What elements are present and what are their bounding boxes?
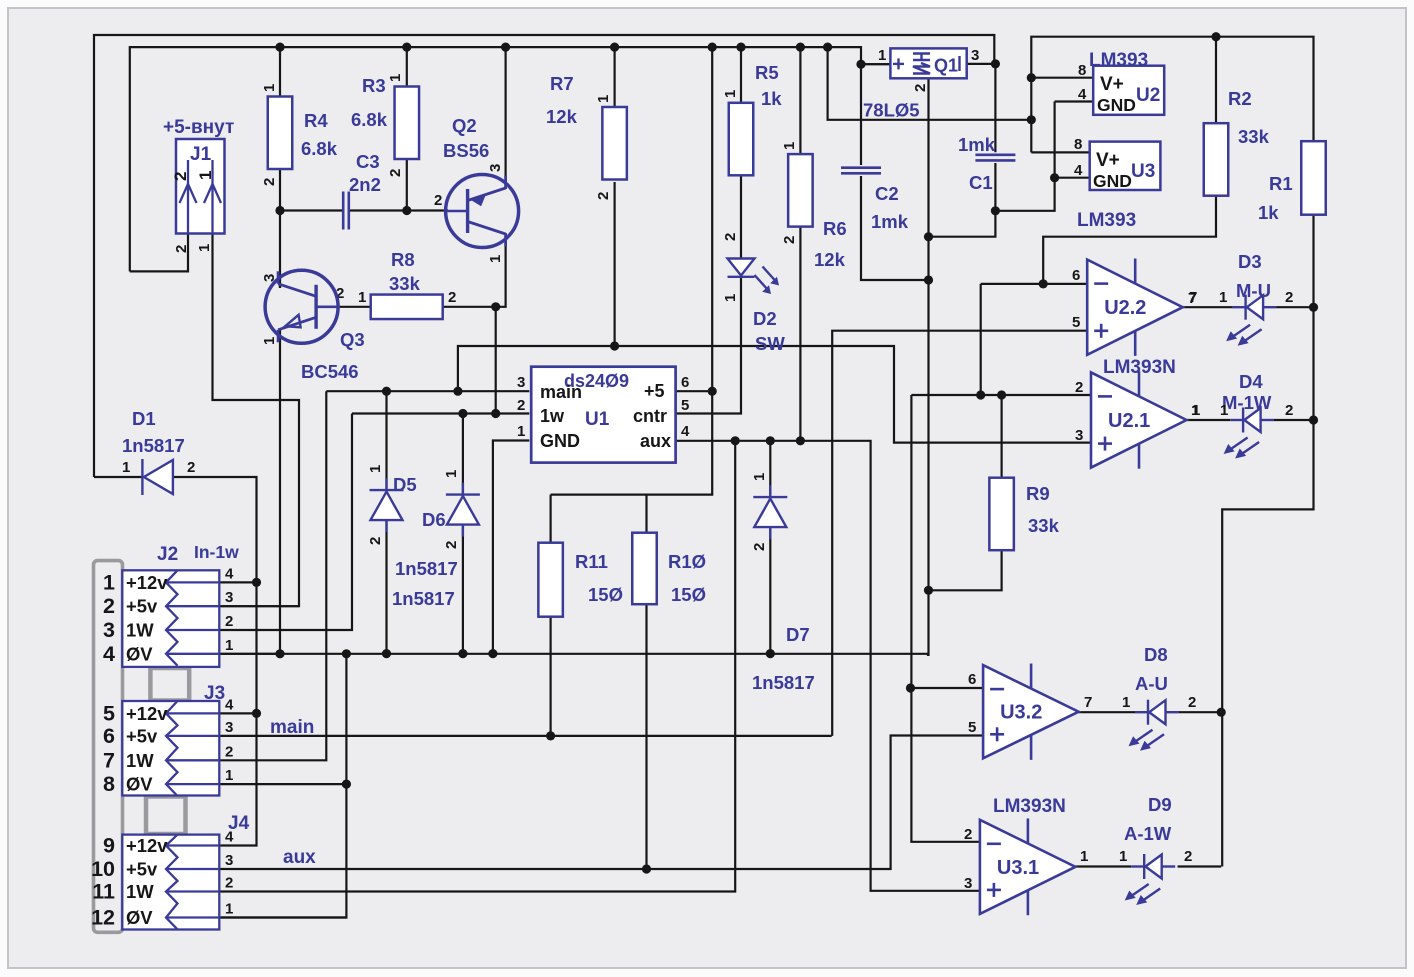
svg-text:ØV: ØV xyxy=(126,643,153,664)
connector J1 xyxy=(176,139,225,234)
wire R8/Q2 node down to 1w line xyxy=(495,307,497,414)
junction Q1 pin1/C2 xyxy=(856,60,865,69)
junction main sense/main line xyxy=(453,387,462,396)
svg-text:2: 2 xyxy=(751,543,768,551)
wire Q2 collector to +5V rail xyxy=(505,47,507,189)
svg-text:GND: GND xyxy=(540,431,580,451)
svg-text:1: 1 xyxy=(1219,289,1227,306)
svg-text:2: 2 xyxy=(434,192,442,209)
svg-text:8: 8 xyxy=(103,772,115,796)
svg-text:In-1w: In-1w xyxy=(194,542,239,562)
transistor Q3 xyxy=(265,270,338,343)
svg-text:D9: D9 xyxy=(1148,794,1172,815)
wire Q1 pin2 GND vertical xyxy=(927,78,929,655)
resistor R11 xyxy=(538,543,563,617)
junction Q2 collector/+5V rail xyxy=(501,43,510,52)
svg-text:1k: 1k xyxy=(761,88,782,109)
wire D7 column xyxy=(769,441,771,654)
wire U3.1 output xyxy=(1075,865,1131,867)
junction V+ feed/+5V rail xyxy=(823,43,832,52)
svg-text:6: 6 xyxy=(681,374,689,391)
wire U1 +5 pin to rail xyxy=(676,390,712,392)
wire U2 pin4 stub xyxy=(1055,100,1094,102)
svg-text:M-U: M-U xyxy=(1236,280,1271,301)
wire D5 column xyxy=(385,391,387,653)
svg-text:1: 1 xyxy=(443,470,460,478)
svg-text:BC546: BC546 xyxy=(301,361,359,382)
svg-text:2: 2 xyxy=(103,594,115,618)
wire Q3 emitter down to 0V bus xyxy=(279,330,281,654)
svg-text:R1Ø: R1Ø xyxy=(668,551,706,572)
junction R2 top bus xyxy=(1211,32,1220,41)
svg-text:2: 2 xyxy=(443,541,460,549)
svg-text:U3.1: U3.1 xyxy=(997,857,1039,879)
junction GND C1/U2U3 xyxy=(991,206,1000,215)
svg-text:2: 2 xyxy=(1184,848,1192,865)
wire D9 cathode to right chain xyxy=(1178,865,1222,867)
junction V+ feed/V+ vertical xyxy=(1027,115,1036,124)
wire U2 pin8 stub xyxy=(1031,77,1093,79)
wire R7 bottom to main-sense line xyxy=(613,182,615,346)
led D2 xyxy=(728,259,780,295)
junction U3 pin4 xyxy=(1050,173,1059,182)
svg-text:1: 1 xyxy=(1119,848,1127,865)
svg-text:Q2: Q2 xyxy=(452,115,477,136)
svg-text:2: 2 xyxy=(448,289,456,306)
svg-text:1: 1 xyxy=(1122,694,1130,711)
svg-text:11: 11 xyxy=(92,880,115,904)
wire U2.1 pin2 line xyxy=(911,394,1091,396)
svg-text:3: 3 xyxy=(964,875,972,892)
svg-text:4: 4 xyxy=(1078,86,1087,103)
wire U3 pin4 stub xyxy=(1055,177,1090,179)
wire +5V rail bus xyxy=(130,47,891,271)
wire R2 bottom to minus net xyxy=(1043,195,1216,284)
wire 1w line to J2 1W pin xyxy=(219,414,352,631)
svg-text:J2: J2 xyxy=(157,544,178,565)
svg-text:GND: GND xyxy=(1097,95,1136,115)
svg-text:+5v: +5v xyxy=(126,596,158,617)
wire J3 pin1 stub xyxy=(219,783,346,785)
junction J3 pin4/+12v chain xyxy=(252,709,261,718)
svg-text:cntr: cntr xyxy=(633,406,667,426)
junction 0V/D5 xyxy=(382,649,391,658)
svg-text:R2: R2 xyxy=(1228,88,1252,109)
svg-text:2: 2 xyxy=(1188,694,1196,711)
junction R3/+5V rail xyxy=(402,43,411,52)
junction main line/D5 xyxy=(382,387,391,396)
wire Q1 pin1 stub xyxy=(861,63,890,65)
transistor Q2 xyxy=(446,175,519,248)
junction GND vertical/C2 xyxy=(924,275,933,284)
svg-text:3: 3 xyxy=(517,374,525,391)
svg-text:aux: aux xyxy=(640,431,671,451)
svg-text:D1: D1 xyxy=(132,408,156,429)
svg-text:4: 4 xyxy=(225,696,234,713)
wire 1w line xyxy=(352,412,529,414)
wire R5 top xyxy=(740,47,742,103)
wire main line xyxy=(326,390,529,392)
svg-text:1n5817: 1n5817 xyxy=(752,672,815,693)
connector J4 xyxy=(122,835,219,930)
svg-text:BS56: BS56 xyxy=(443,140,489,161)
power block U2 (LM393) xyxy=(1093,66,1164,115)
wire V+ vertical / right top bus xyxy=(1031,37,1313,153)
resistor R3 xyxy=(395,87,420,160)
capacitor C2 xyxy=(841,168,881,174)
junction 0V/D7 xyxy=(766,649,775,658)
svg-text:2: 2 xyxy=(517,397,525,414)
wire J4 pin1 stub xyxy=(219,916,346,918)
wire J3 +5v line to comparators xyxy=(219,735,831,737)
junction minus net/R9 xyxy=(997,390,1006,399)
svg-text:D2: D2 xyxy=(753,308,777,329)
svg-text:6: 6 xyxy=(103,724,115,748)
svg-text:6: 6 xyxy=(968,671,976,688)
junction +5 feed/+5V rail xyxy=(708,43,717,52)
wire Q2 emitter down to R8 node xyxy=(442,233,505,307)
junction minus net/U3.2 pin6 xyxy=(906,683,915,692)
wire R3 bottom to C3 node xyxy=(406,160,408,211)
junction GND vertical/C1 link xyxy=(924,232,933,241)
wire R10 bottom xyxy=(645,604,647,869)
svg-text:1n5817: 1n5817 xyxy=(395,558,458,579)
wire R10 top stub xyxy=(645,495,647,533)
svg-text:A-1W: A-1W xyxy=(1124,823,1172,844)
svg-text:1: 1 xyxy=(367,465,384,473)
junction C3/R4 node xyxy=(275,206,284,215)
svg-text:1: 1 xyxy=(225,637,233,654)
svg-text:1W: 1W xyxy=(126,750,154,771)
junction D4/R1 chain xyxy=(1309,415,1318,424)
svg-text:33k: 33k xyxy=(389,273,421,294)
wire 0V bus xyxy=(219,654,927,655)
junction R4/+5V rail xyxy=(275,43,284,52)
junction 0V/Q3 emitter xyxy=(275,649,284,658)
wire J1 pin2 to +5V rail xyxy=(130,234,188,272)
svg-text:ØV: ØV xyxy=(126,907,153,928)
svg-text:J4: J4 xyxy=(228,813,250,834)
svg-text:5: 5 xyxy=(1072,314,1080,331)
svg-text:2: 2 xyxy=(912,84,929,92)
junction C3/R3 node xyxy=(402,206,411,215)
led D3 xyxy=(1226,295,1277,346)
wire R1 bottom chain xyxy=(1222,215,1313,867)
svg-text:1: 1 xyxy=(196,244,213,252)
svg-text:1: 1 xyxy=(225,767,233,784)
wire U2.2 output xyxy=(1182,306,1232,308)
wire C2 bottom to GND vertical xyxy=(861,176,929,280)
wire J4 1W line (aux) xyxy=(219,441,735,892)
svg-text:+5: +5 xyxy=(644,381,665,401)
junction J4 +5v/R10 xyxy=(642,864,651,873)
svg-text:3: 3 xyxy=(103,618,115,642)
diode D5 xyxy=(370,478,404,532)
svg-text:12: 12 xyxy=(91,906,115,930)
wire U3 pin8 stub xyxy=(1031,151,1089,153)
svg-text:2: 2 xyxy=(964,826,972,843)
junction 0V/D6 xyxy=(458,649,467,658)
svg-text:1: 1 xyxy=(387,74,404,82)
svg-text:LM393N: LM393N xyxy=(993,796,1066,817)
junction D8/right chain xyxy=(1217,708,1226,717)
svg-text:aux: aux xyxy=(283,847,316,868)
svg-text:1: 1 xyxy=(722,90,739,98)
svg-text:2: 2 xyxy=(187,459,195,476)
svg-text:1: 1 xyxy=(122,459,130,476)
svg-text:2: 2 xyxy=(781,236,798,244)
wire +5 feed vertical xyxy=(551,47,713,495)
resistor R4 xyxy=(268,97,293,170)
svg-text:3: 3 xyxy=(1075,427,1083,444)
wire D8 cathode to right chain xyxy=(1179,711,1221,713)
wire aux line xyxy=(676,441,980,891)
svg-text:3: 3 xyxy=(261,274,278,282)
resistor R9 xyxy=(989,478,1014,551)
svg-text:7: 7 xyxy=(1188,290,1196,307)
svg-text:U2: U2 xyxy=(1136,85,1160,106)
junction 1w/D6 xyxy=(458,409,467,418)
svg-text:+12v: +12v xyxy=(126,572,168,593)
junction GND vertical/R9 xyxy=(924,586,933,595)
svg-text:2: 2 xyxy=(1285,402,1293,419)
led D8 xyxy=(1129,700,1180,751)
svg-text:2: 2 xyxy=(1285,289,1293,306)
svg-text:1w: 1w xyxy=(540,406,565,426)
svg-text:R5: R5 xyxy=(755,62,779,83)
wire D1 cathode to +12v pins xyxy=(173,477,257,846)
led D9 xyxy=(1125,854,1176,905)
svg-text:3: 3 xyxy=(225,589,233,606)
svg-text:J1: J1 xyxy=(190,144,212,165)
svg-text:R3: R3 xyxy=(362,75,386,96)
svg-text:6.8k: 6.8k xyxy=(301,138,338,159)
svg-text:+5v: +5v xyxy=(126,725,158,746)
wire J2 pin3 stub xyxy=(219,605,299,607)
svg-text:U3.2: U3.2 xyxy=(1000,702,1042,724)
wire 0V feed to J3/J4 xyxy=(219,654,346,918)
svg-text:Q3: Q3 xyxy=(340,329,365,350)
svg-text:D3: D3 xyxy=(1238,251,1262,272)
svg-text:1: 1 xyxy=(261,84,278,92)
wire U2/U3 GND to C1 node xyxy=(995,102,1054,211)
svg-text:7: 7 xyxy=(103,748,115,772)
wire C1 bottom to GND node xyxy=(929,163,996,237)
op-amp U2.2 xyxy=(1087,259,1183,356)
gray key J2-J3 xyxy=(150,668,189,701)
IC U1 ds2409 xyxy=(531,367,675,463)
svg-text:1: 1 xyxy=(595,95,612,103)
svg-text:R11: R11 xyxy=(575,551,608,572)
wire R4 bottom to C3 node xyxy=(279,168,281,210)
junction R5/+5V rail xyxy=(736,43,745,52)
svg-text:2: 2 xyxy=(595,192,612,200)
svg-text:V+: V+ xyxy=(1096,150,1120,171)
svg-text:1: 1 xyxy=(1192,402,1200,419)
resistor R1 xyxy=(1301,141,1326,215)
wire J2 pin1 / 0V xyxy=(219,653,280,655)
svg-text:C2: C2 xyxy=(875,183,899,204)
svg-text:1mk: 1mk xyxy=(958,134,996,155)
junction Q1 pin3/C1 xyxy=(991,59,1000,68)
svg-text:15Ø: 15Ø xyxy=(588,584,623,605)
wire U2.2 pin6 stub xyxy=(981,283,1087,285)
svg-text:1: 1 xyxy=(487,255,504,263)
svg-text:LM393: LM393 xyxy=(1089,50,1148,71)
wire C3 left plate link xyxy=(280,209,343,211)
svg-text:2: 2 xyxy=(173,245,190,253)
svg-text:6: 6 xyxy=(1072,267,1080,284)
svg-text:1mk: 1mk xyxy=(871,211,909,232)
svg-text:main: main xyxy=(270,717,314,738)
capacitor C3 xyxy=(343,192,349,230)
svg-text:5: 5 xyxy=(103,701,115,725)
svg-text:2: 2 xyxy=(225,743,233,760)
svg-text:R6: R6 xyxy=(823,218,847,239)
svg-text:D7: D7 xyxy=(786,624,810,645)
svg-text:D6: D6 xyxy=(422,509,446,530)
svg-text:+5-внут: +5-внут xyxy=(163,117,234,138)
svg-text:8: 8 xyxy=(1074,136,1082,153)
svg-text:4: 4 xyxy=(225,565,234,582)
svg-text:2n2: 2n2 xyxy=(349,174,381,195)
wire R6 bottom to aux line xyxy=(799,226,801,441)
svg-text:6.8k: 6.8k xyxy=(351,109,388,130)
junction R7/+5V rail xyxy=(610,43,619,52)
svg-text:1W: 1W xyxy=(126,620,154,641)
svg-text:U2.2: U2.2 xyxy=(1104,297,1146,319)
op-amp U2.1 xyxy=(1091,371,1187,468)
svg-text:2: 2 xyxy=(261,178,278,186)
wire minus net down to R9 top xyxy=(1000,395,1002,478)
svg-text:15Ø: 15Ø xyxy=(671,584,706,605)
op-amp U3.2 xyxy=(983,664,1079,760)
svg-text:V+: V+ xyxy=(1100,74,1124,95)
svg-text:4: 4 xyxy=(1074,162,1083,179)
svg-text:12k: 12k xyxy=(814,249,846,270)
svg-text:Q1: Q1 xyxy=(934,56,958,76)
wire Q1 pin3 to C1 xyxy=(967,64,996,152)
wire +12V bus (top) xyxy=(94,35,994,477)
junction 0V/U1 GND xyxy=(488,649,497,658)
svg-text:1W: 1W xyxy=(126,881,154,902)
wire J1 pin1 to J2 pin3 xyxy=(213,234,300,607)
svg-text:U3: U3 xyxy=(1131,161,1155,182)
resistor R8 xyxy=(371,295,443,320)
connector J2 xyxy=(122,570,219,667)
svg-text:R1: R1 xyxy=(1269,173,1293,194)
svg-text:2: 2 xyxy=(225,875,233,892)
svg-text:M-1W: M-1W xyxy=(1222,392,1272,413)
gray pin-number bracket xyxy=(94,561,123,933)
svg-text:4: 4 xyxy=(681,423,690,440)
wire J4 +5v line xyxy=(219,736,983,870)
wire R5 bottom to D2 xyxy=(740,175,742,258)
regulator Q1 78L05 xyxy=(890,48,966,78)
wire Q3 collector up xyxy=(279,284,281,288)
svg-text:1: 1 xyxy=(358,289,366,306)
svg-text:1: 1 xyxy=(1220,402,1228,419)
junction J2 pin4/D1 xyxy=(252,578,261,587)
svg-text:2: 2 xyxy=(171,172,190,181)
svg-text:1: 1 xyxy=(517,423,525,440)
svg-text:A-U: A-U xyxy=(1135,673,1168,694)
svg-text:+12v: +12v xyxy=(126,835,168,856)
junction R8/Q2 emitter xyxy=(491,302,500,311)
svg-text:2: 2 xyxy=(367,537,384,545)
svg-text:1: 1 xyxy=(722,294,739,302)
svg-text:+12v: +12v xyxy=(126,703,168,724)
svg-text:1: 1 xyxy=(196,171,215,180)
svg-text:C3: C3 xyxy=(356,151,380,172)
diode D1 xyxy=(142,459,173,495)
wire C2 top from +5V-rail corner xyxy=(860,64,862,165)
resistor R5 xyxy=(729,103,754,176)
svg-text:78LØ5: 78LØ5 xyxy=(863,100,920,121)
svg-text:4: 4 xyxy=(103,642,115,666)
wire J2 pin4 stub xyxy=(219,581,256,583)
junction aux/R6 xyxy=(796,436,805,445)
junction J3 +5v/R11 xyxy=(546,731,555,740)
svg-text:D4: D4 xyxy=(1239,371,1263,392)
wire D3 cathode to R1 chain xyxy=(1277,306,1314,308)
junction 0V/J3J4 feed xyxy=(342,649,351,658)
capacitor C1 xyxy=(975,155,1015,161)
svg-text:2: 2 xyxy=(722,233,739,241)
led D4 xyxy=(1224,408,1275,459)
wire U2.2 pin5 from main +5v xyxy=(832,331,1087,736)
op-amp U3.1 xyxy=(980,818,1076,915)
svg-text:12k: 12k xyxy=(546,106,578,127)
wire D6 column xyxy=(462,414,464,654)
wire U3.2 pin6 stub xyxy=(911,687,984,689)
junction 1w/R8 node xyxy=(491,409,500,418)
wire D1 anode xyxy=(94,476,142,478)
junction aux/J4-1W xyxy=(731,436,740,445)
junction aux/D7 xyxy=(766,436,775,445)
junction R6/+5V rail xyxy=(796,43,805,52)
svg-text:U2.1: U2.1 xyxy=(1108,410,1150,432)
junction U2 pin8 xyxy=(1027,73,1036,82)
wire R11 top stub xyxy=(549,495,551,543)
diode D7 xyxy=(753,485,787,539)
wire U3.2 output xyxy=(1078,711,1135,713)
wire Q3 base to R8 xyxy=(324,306,371,308)
wire J3 pin4 stub xyxy=(219,712,256,714)
svg-text:10: 10 xyxy=(91,857,115,881)
svg-text:GND: GND xyxy=(1093,171,1132,191)
wire R4 top xyxy=(279,47,281,96)
wire U2.1 output xyxy=(1187,419,1230,421)
wire R6 top xyxy=(799,47,801,154)
wire R7 top xyxy=(613,47,615,107)
wire main sense line xyxy=(458,346,1091,443)
svg-text:1n5817: 1n5817 xyxy=(122,435,185,456)
wire minus net down to U2.1 pin2 xyxy=(980,284,982,395)
wire +5V rail to V+ feed xyxy=(828,47,1032,120)
wire D4 cathode to R1 chain xyxy=(1274,419,1314,421)
wire R3 top xyxy=(406,47,408,86)
svg-text:main: main xyxy=(540,382,582,402)
svg-text:2: 2 xyxy=(387,169,404,177)
svg-text:3: 3 xyxy=(487,164,504,172)
svg-text:1: 1 xyxy=(103,570,115,594)
svg-text:3: 3 xyxy=(225,719,233,736)
svg-text:+5v: +5v xyxy=(126,859,158,880)
wire C3 right plate to Q2 base xyxy=(349,209,448,211)
svg-text:D5: D5 xyxy=(393,474,417,495)
junction minus net/U2.1 pin2 a xyxy=(976,390,985,399)
